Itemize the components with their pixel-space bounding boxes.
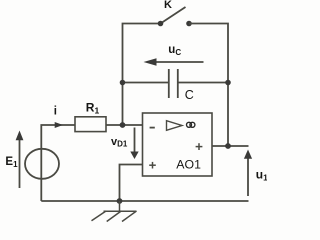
- arrow uC: [144, 58, 204, 65]
- node junction capacitor-left: [120, 80, 126, 86]
- label R1: [86, 101, 100, 116]
- wire switch to top-right corner: [189, 24, 228, 147]
- svg-text:vD1: vD1: [111, 136, 128, 149]
- wire plus input to ground rail: [120, 165, 143, 202]
- switch K: [158, 7, 192, 26]
- op-amp infinity symbol: [187, 122, 195, 127]
- node junction capacitor-right: [225, 80, 231, 86]
- arrow vD1: [130, 128, 138, 160]
- wire R1 to op-amp minus input: [106, 124, 143, 126]
- node ground junction: [117, 198, 123, 204]
- label uC: [168, 44, 181, 57]
- svg-text:i: i: [54, 105, 57, 117]
- wire output: [212, 145, 249, 147]
- voltage source E1: [25, 149, 59, 179]
- svg-text:u1: u1: [256, 167, 267, 182]
- label K: [164, 0, 172, 11]
- label vD1: [111, 136, 128, 149]
- wire bottom rail: [41, 200, 248, 202]
- node A inverting input junction: [120, 122, 126, 128]
- svg-text:C: C: [185, 88, 194, 102]
- node output junction: [225, 143, 231, 149]
- op-amp minus input sign: [150, 127, 155, 129]
- arrow u1: [244, 150, 252, 197]
- wire top-left (node A to switch): [123, 24, 161, 125]
- svg-text:E1: E1: [5, 156, 18, 169]
- arrow E1: [16, 131, 24, 189]
- label u1: [256, 167, 268, 182]
- ground: [92, 201, 137, 222]
- wire source top to R1: [41, 125, 75, 201]
- wire capacitor branch right: [178, 82, 228, 84]
- arrow current i: [55, 122, 63, 128]
- capacitor C: [169, 69, 178, 98]
- svg-text:K: K: [164, 0, 172, 11]
- label AO1: [176, 157, 201, 171]
- resistor R1: [75, 117, 106, 132]
- op-amp plus input sign: [149, 162, 156, 169]
- svg-text:uC: uC: [168, 44, 181, 57]
- label C: [185, 88, 194, 102]
- op-amp gain triangle: [167, 121, 183, 131]
- op-amp plus output sign: [196, 143, 203, 150]
- svg-text:AO1: AO1: [176, 157, 201, 171]
- label E1: [5, 156, 18, 169]
- op-amp AO1 box: [143, 113, 213, 176]
- svg-text:R1: R1: [86, 101, 100, 116]
- label i: [54, 105, 57, 117]
- wire capacitor branch left: [123, 82, 169, 84]
